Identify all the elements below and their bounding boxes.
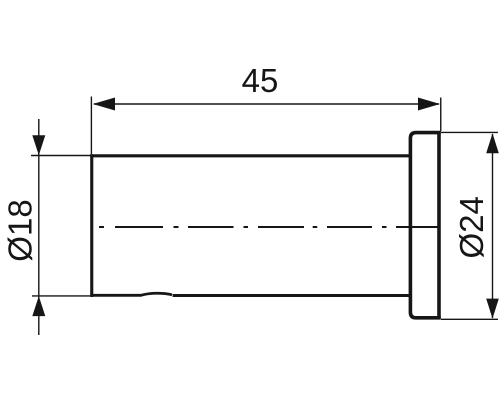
dim 24 lower arrowhead (points down): [486, 299, 499, 319]
dim 18 upper arrowhead (points down): [32, 135, 45, 155]
dim 18 lower arrowhead (points up): [32, 296, 45, 316]
part body bottom edge right segment: [173, 294, 411, 297]
dim 18 dimension line: [38, 119, 40, 335]
dim 24 top extension line: [441, 131, 498, 133]
flange right edge: [437, 131, 441, 319]
svg-text:Ø24: Ø24: [453, 196, 490, 258]
dim 24 bottom extension line: [441, 318, 498, 320]
dim 24 upper arrowhead (points up): [486, 133, 499, 153]
part body left edge: [90, 154, 93, 297]
dim 24 dimension line: [492, 134, 494, 318]
dim 45 right arrowhead: [418, 98, 440, 111]
dim 45 left extension line: [90, 97, 92, 155]
dim 45 dimension line: [94, 103, 439, 105]
dim 18 bottom extension line: [32, 295, 90, 297]
centerline dash 1: [99, 226, 439, 228]
part body top edge: [90, 154, 410, 157]
svg-text:Ø18: Ø18: [2, 199, 39, 261]
dim 45 right extension line: [440, 98, 442, 132]
dim 45 left arrowhead: [93, 98, 115, 111]
flange outline (left side rounded): [410, 133, 440, 318]
part body bottom edge left segment with hump: [90, 293, 172, 295]
dim 18 top extension line: [31, 155, 93, 157]
svg-text:45: 45: [242, 62, 279, 99]
